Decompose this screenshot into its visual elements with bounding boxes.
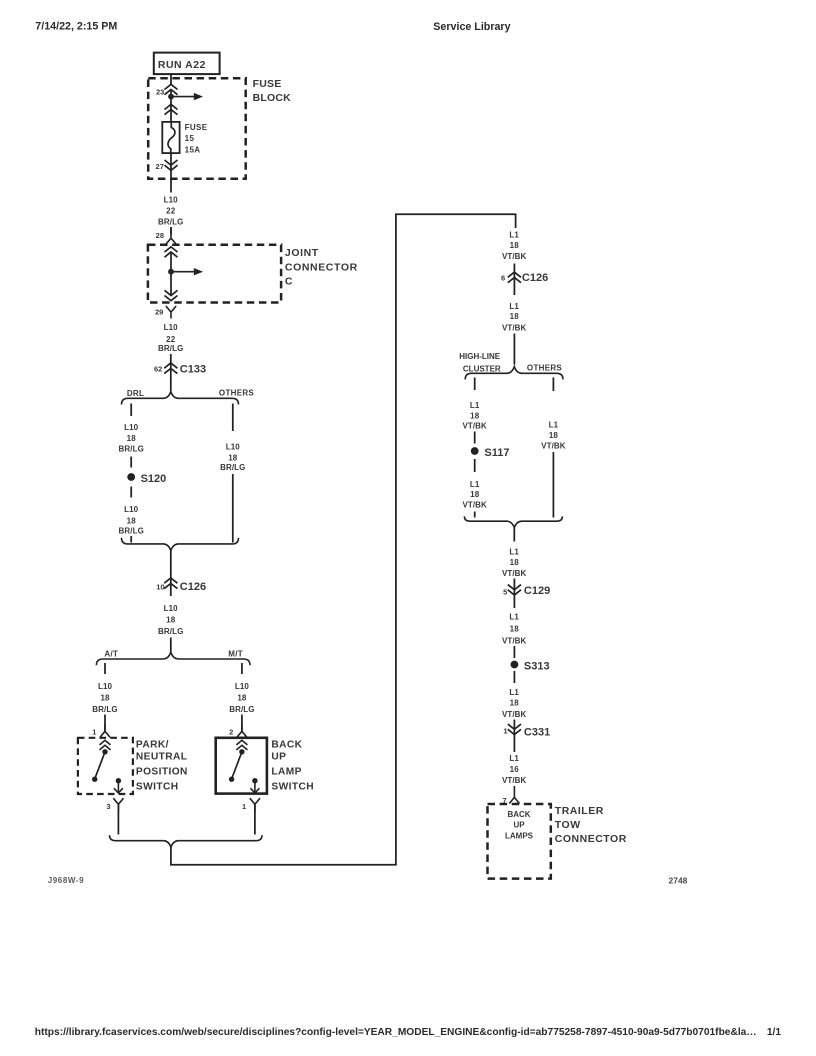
wire label L1 18 VT/BK (OTHERS right branch) bbox=[541, 420, 566, 450]
wire M/T branch to BUL switch bbox=[241, 715, 243, 732]
svg-text:BR/LG: BR/LG bbox=[158, 344, 183, 353]
RUN A22 box bbox=[154, 53, 220, 75]
wire label L10 22 BR/LG (fuse to joint conn) bbox=[158, 195, 183, 226]
connector C133 chevrons bbox=[164, 363, 177, 374]
wire-end fork below pin 29 bbox=[166, 306, 176, 319]
svg-text:62: 62 bbox=[154, 364, 162, 373]
wire-end fork at PNP pin 1 bbox=[100, 724, 110, 737]
junction dot pin 23 bbox=[168, 94, 174, 100]
svg-text:2: 2 bbox=[229, 728, 233, 737]
svg-text:L1: L1 bbox=[509, 547, 519, 556]
svg-text:2748: 2748 bbox=[669, 875, 688, 885]
svg-text:22: 22 bbox=[166, 207, 176, 216]
svg-text:L1: L1 bbox=[549, 420, 559, 429]
wire above S313 bbox=[513, 646, 515, 658]
connector chevrons inside BUL switch bbox=[236, 740, 247, 750]
svg-text:L10: L10 bbox=[164, 323, 179, 332]
svg-text:VT/BK: VT/BK bbox=[502, 323, 527, 332]
svg-text:BACK: BACK bbox=[271, 739, 302, 750]
svg-text:DRL: DRL bbox=[127, 389, 144, 398]
svg-text:C129: C129 bbox=[524, 585, 550, 597]
svg-text:VT/BK: VT/BK bbox=[502, 636, 527, 645]
svg-text:FUSE: FUSE bbox=[253, 78, 282, 90]
svg-text:18: 18 bbox=[237, 693, 247, 702]
svg-text:18: 18 bbox=[510, 624, 520, 633]
svg-text:L10: L10 bbox=[124, 423, 139, 432]
svg-text:18: 18 bbox=[549, 431, 559, 440]
svg-text:16: 16 bbox=[510, 765, 520, 774]
svg-text:VT/BK: VT/BK bbox=[502, 776, 527, 785]
wire label L10 18 BR/LG (A/T branch) bbox=[92, 682, 117, 714]
svg-text:15: 15 bbox=[185, 134, 195, 143]
svg-text:5: 5 bbox=[503, 587, 507, 596]
wire OTHERS right branch tick lower bbox=[552, 452, 554, 518]
svg-text:22: 22 bbox=[166, 335, 176, 344]
svg-text:18: 18 bbox=[470, 412, 480, 421]
svg-text:L10: L10 bbox=[98, 682, 113, 691]
svg-text:L10: L10 bbox=[235, 682, 250, 691]
wire-end fork below BUL pin 1 bbox=[250, 798, 260, 811]
svg-text:C133: C133 bbox=[180, 364, 206, 376]
connector C129 chevrons bbox=[508, 585, 521, 595]
back up lamps label inside trailer box bbox=[505, 810, 534, 841]
svg-text:C126: C126 bbox=[522, 272, 548, 284]
svg-text:BR/LG: BR/LG bbox=[158, 218, 183, 227]
splice S313 bbox=[511, 661, 519, 669]
svg-text:L1: L1 bbox=[509, 754, 519, 763]
svg-text:BR/LG: BR/LG bbox=[220, 463, 245, 472]
svg-text:Service Library: Service Library bbox=[433, 21, 510, 33]
wire HIGH-LINE branch tick 3 bbox=[474, 459, 476, 472]
svg-text:CONNECTOR: CONNECTOR bbox=[285, 261, 358, 273]
connector chevrons inside joint connector top bbox=[165, 247, 178, 257]
wire label L1 18 VT/BK (above C129) bbox=[502, 547, 527, 578]
svg-text:L1: L1 bbox=[470, 480, 480, 489]
svg-text:A/T: A/T bbox=[104, 649, 118, 658]
wire through C331 bbox=[513, 720, 515, 753]
wire BUL output to merge brace bbox=[254, 804, 256, 834]
merge brace below switches bbox=[110, 835, 263, 847]
wire label L10 18 BR/LG (OTHERS branch) bbox=[220, 442, 245, 472]
arrow branch in joint connector bbox=[171, 268, 203, 275]
svg-text:POSITION: POSITION bbox=[136, 766, 188, 777]
svg-text:18: 18 bbox=[166, 616, 176, 625]
svg-text:10: 10 bbox=[156, 583, 164, 592]
svg-text:3: 3 bbox=[106, 802, 110, 811]
merge brace right column bbox=[464, 516, 562, 527]
svg-text:PARK/: PARK/ bbox=[136, 739, 169, 750]
back up lamp switch label bbox=[271, 739, 314, 792]
wire label L1 18 VT/BK (HIGH-LINE below S117) bbox=[462, 480, 487, 509]
wire HIGH-LINE branch tick 1 bbox=[474, 378, 476, 391]
wire through C129 bbox=[513, 579, 515, 609]
merge brace above C126 bbox=[122, 538, 239, 551]
svg-text:1: 1 bbox=[92, 728, 96, 737]
wire-end fork at trailer pin 7 bbox=[509, 786, 519, 804]
wire DRL branch tick 4 bbox=[130, 536, 132, 543]
split brace A/T M/T bbox=[96, 652, 250, 665]
wire label L1 18 VT/BK (HIGH-LINE above S117) bbox=[462, 401, 487, 430]
svg-text:18: 18 bbox=[470, 490, 480, 499]
svg-text:S117: S117 bbox=[484, 447, 509, 459]
split brace HIGH-LINE/OTHERS bbox=[465, 367, 563, 380]
svg-text:C: C bbox=[285, 276, 293, 288]
svg-text:6: 6 bbox=[501, 274, 505, 283]
wire-end fork below PNP pin 3 bbox=[113, 798, 123, 811]
wire DRL branch tick 3 bbox=[130, 487, 132, 498]
branch label HIGH-LINE CLUSTER bbox=[459, 352, 501, 373]
svg-text:18: 18 bbox=[127, 434, 137, 443]
wire OTHERS branch tick upper bbox=[232, 404, 234, 432]
svg-text:L1: L1 bbox=[509, 688, 519, 697]
wire label L10 18 BR/LG (DRL above S120) bbox=[119, 423, 144, 453]
connector chevrons inside PNP switch bbox=[100, 740, 111, 750]
wire-end fork at BUL pin 2 bbox=[237, 724, 247, 737]
wire HIGH-LINE branch tick 2 bbox=[474, 432, 476, 444]
svg-text:CLUSTER: CLUSTER bbox=[463, 364, 501, 373]
svg-text:TRAILER: TRAILER bbox=[555, 805, 604, 817]
wire label L1 18 VT/BK (top right) bbox=[502, 231, 527, 262]
wire right col above C126 bbox=[513, 264, 515, 296]
wire A/T branch tick bbox=[104, 663, 106, 674]
svg-text:BR/LG: BR/LG bbox=[158, 627, 183, 636]
park/neutral position switch dashed box bbox=[78, 738, 133, 794]
wire label L10 22 BR/LG (joint conn to C133) bbox=[158, 323, 183, 353]
svg-text:VT/BK: VT/BK bbox=[462, 422, 487, 431]
wire A/T branch to PNP switch bbox=[104, 715, 106, 732]
connector chevrons at pin 23 bbox=[165, 84, 178, 94]
svg-text:C126: C126 bbox=[180, 581, 206, 593]
svg-text:1/1: 1/1 bbox=[767, 1027, 781, 1038]
splice S117 bbox=[471, 447, 479, 455]
svg-text:UP: UP bbox=[513, 821, 525, 830]
svg-text:27: 27 bbox=[156, 162, 164, 171]
svg-text:18: 18 bbox=[127, 517, 137, 526]
joint connector C label bbox=[285, 247, 358, 288]
svg-text:29: 29 bbox=[155, 307, 163, 316]
BUL switch contacts bbox=[229, 749, 259, 793]
wire OTHERS right branch tick upper bbox=[552, 378, 554, 392]
svg-text:S313: S313 bbox=[524, 660, 550, 672]
wire joint connector C internal bbox=[170, 252, 172, 296]
svg-text:VT/BK: VT/BK bbox=[502, 710, 527, 719]
wire below S313 bbox=[513, 671, 515, 683]
svg-text:JOINT: JOINT bbox=[285, 247, 319, 259]
svg-text:L10: L10 bbox=[124, 505, 139, 514]
wire below BR/LG label to C133 bbox=[170, 354, 172, 391]
svg-text:BR/LG: BR/LG bbox=[119, 527, 144, 536]
svg-text:BACK: BACK bbox=[507, 810, 530, 819]
wire merge to C126 bbox=[170, 551, 172, 596]
svg-text:L10: L10 bbox=[226, 442, 241, 451]
wire through fuse block pin 23 down to fuse bbox=[170, 90, 172, 122]
wire label L10 18 BR/LG (C126 to split) bbox=[158, 604, 183, 636]
wire PNP output to merge brace bbox=[117, 804, 119, 834]
svg-text:VT/BK: VT/BK bbox=[541, 441, 566, 450]
svg-text:L10: L10 bbox=[164, 195, 179, 204]
wire C126 to labels bbox=[170, 638, 172, 653]
svg-text:L1: L1 bbox=[509, 612, 519, 621]
fuse block dashed box bbox=[148, 78, 246, 179]
svg-text:UP: UP bbox=[271, 752, 286, 763]
wire HIGH-LINE branch tick 4 bbox=[474, 512, 476, 518]
svg-text:C331: C331 bbox=[524, 727, 550, 739]
svg-text:VT/BK: VT/BK bbox=[462, 500, 487, 509]
wire label L10 18 BR/LG (DRL below S120) bbox=[119, 505, 144, 536]
wire OTHERS branch tick lower bbox=[232, 474, 234, 543]
svg-text:28: 28 bbox=[156, 231, 164, 240]
svg-text:18: 18 bbox=[510, 698, 520, 707]
wire right col below C126 labels bbox=[513, 334, 515, 365]
svg-text:LAMPS: LAMPS bbox=[505, 832, 534, 841]
svg-text:L10: L10 bbox=[164, 604, 179, 613]
wire above pin 28 fork bbox=[170, 227, 172, 235]
svg-text:L1: L1 bbox=[509, 231, 519, 240]
connector chevrons below pin 23 bbox=[165, 104, 178, 114]
svg-text:HIGH-LINE: HIGH-LINE bbox=[459, 352, 501, 361]
trailer tow connector label bbox=[555, 805, 627, 845]
svg-text:1: 1 bbox=[503, 727, 507, 736]
svg-text:7/14/22, 2:15 PM: 7/14/22, 2:15 PM bbox=[35, 21, 117, 33]
svg-text:TOW: TOW bbox=[555, 819, 581, 831]
connector chevrons inside joint connector bottom bbox=[165, 290, 178, 300]
svg-text:L1: L1 bbox=[509, 302, 519, 311]
wire RUN A22 to fuse block bbox=[170, 74, 172, 85]
wire DRL branch tick 2 bbox=[130, 457, 132, 468]
svg-text:BR/LG: BR/LG bbox=[119, 444, 144, 453]
wire label L1 18 VT/BK (C129 to S313) bbox=[502, 612, 527, 645]
wire label L10 18 BR/LG (M/T branch) bbox=[229, 682, 254, 714]
svg-text:18: 18 bbox=[510, 312, 520, 321]
connector C126 chevrons (left) bbox=[164, 578, 177, 589]
svg-text:LAMP: LAMP bbox=[271, 766, 301, 777]
wire-end fork at pin 28 bbox=[166, 228, 176, 245]
park/neutral position switch label bbox=[136, 739, 188, 792]
svg-text:BR/LG: BR/LG bbox=[229, 705, 254, 714]
connector C331 chevrons bbox=[508, 724, 521, 734]
svg-text:M/T: M/T bbox=[228, 649, 243, 658]
connector C126 chevrons (right) bbox=[508, 272, 521, 283]
wire label L1 18 VT/BK (below C126 right) bbox=[502, 302, 527, 333]
svg-text:18: 18 bbox=[228, 454, 238, 463]
svg-text:L1: L1 bbox=[470, 401, 480, 410]
svg-text:OTHERS: OTHERS bbox=[219, 389, 254, 398]
svg-text:OTHERS: OTHERS bbox=[527, 364, 562, 373]
joint connector C dashed box bbox=[148, 245, 281, 303]
svg-text:BR/LG: BR/LG bbox=[92, 705, 117, 714]
wire right merge output tick bbox=[513, 528, 515, 542]
svg-text:FUSE: FUSE bbox=[185, 123, 208, 132]
wire label L1 16 VT/BK (C331 to trailer) bbox=[502, 754, 527, 785]
svg-text:23: 23 bbox=[156, 88, 164, 97]
svg-text:18: 18 bbox=[100, 693, 110, 702]
svg-text:S120: S120 bbox=[141, 473, 167, 485]
wire DRL branch tick 1 bbox=[130, 404, 132, 417]
trailer tow connector dashed box bbox=[488, 804, 551, 879]
connector chevrons at pin 27 bbox=[165, 160, 178, 170]
svg-text:VT/BK: VT/BK bbox=[502, 252, 527, 261]
wire M/T branch tick bbox=[241, 663, 243, 674]
svg-text:18: 18 bbox=[510, 558, 520, 567]
svg-text:NEUTRAL: NEUTRAL bbox=[136, 752, 187, 763]
svg-text:18: 18 bbox=[510, 241, 520, 250]
svg-text:RUN A22: RUN A22 bbox=[158, 59, 206, 71]
svg-text:https://library.fcaservices.co: https://library.fcaservices.com/web/secu… bbox=[35, 1027, 757, 1038]
svg-text:J968W-9: J968W-9 bbox=[48, 876, 85, 885]
svg-text:CONNECTOR: CONNECTOR bbox=[555, 833, 627, 845]
svg-text:BLOCK: BLOCK bbox=[253, 92, 292, 104]
svg-text:SWITCH: SWITCH bbox=[271, 782, 314, 793]
svg-text:VT/BK: VT/BK bbox=[502, 569, 527, 578]
wire fuse bottom through pin 27 out of fuse block bbox=[170, 153, 172, 193]
wire long run from merge up to right column bbox=[171, 214, 516, 865]
junction dot in joint connector bbox=[168, 269, 174, 275]
splice S120 bbox=[127, 473, 135, 481]
svg-text:SWITCH: SWITCH bbox=[136, 782, 179, 793]
fuse F15 bbox=[162, 122, 207, 155]
back up lamp switch box bbox=[216, 738, 267, 794]
svg-text:15A: 15A bbox=[185, 146, 201, 155]
svg-text:1: 1 bbox=[242, 802, 246, 811]
PNP switch contacts bbox=[92, 749, 123, 793]
split brace DRL/OTHERS bbox=[122, 392, 239, 405]
wire label L1 18 VT/BK (S313 to C331) bbox=[502, 688, 527, 719]
arrow branch from pin 23 bbox=[171, 93, 203, 100]
